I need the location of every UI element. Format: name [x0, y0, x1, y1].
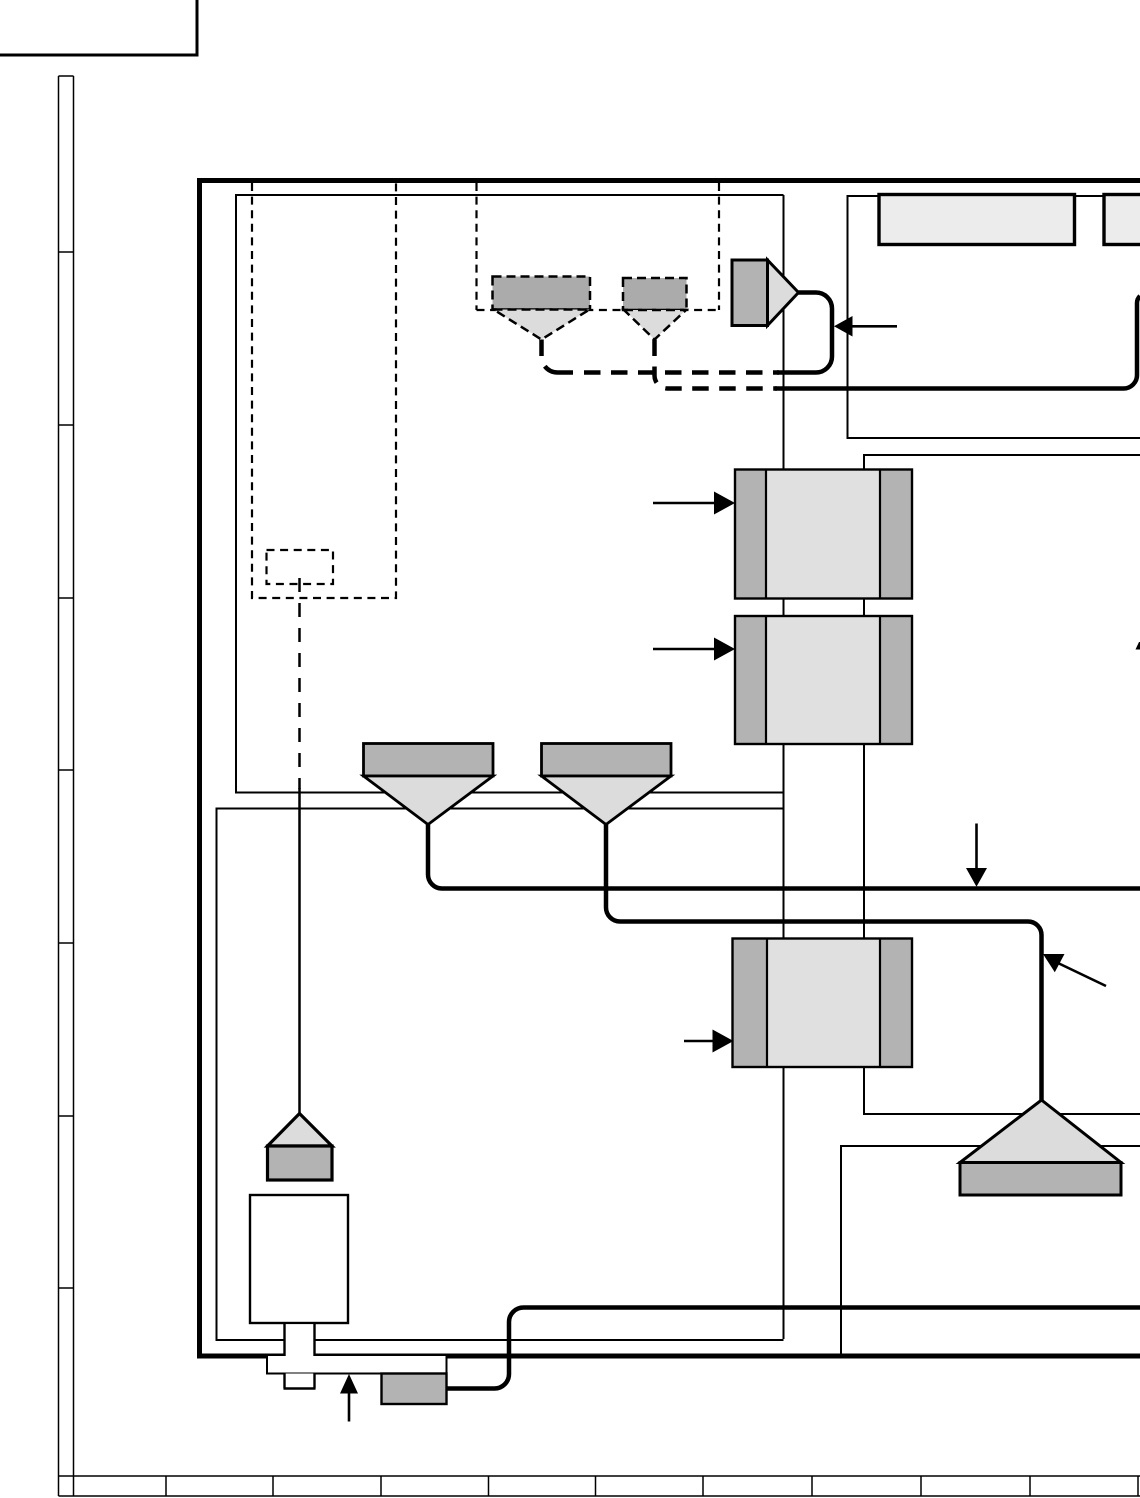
funnel F1: [364, 744, 494, 825]
wire: right elbow bus x=863.5 with y=454.5 and y=1114 branches: [864, 455, 1140, 1114]
module rect R1 (top right): [879, 195, 1075, 245]
connector block CN1: [735, 470, 912, 599]
connector funnel pointing right: [732, 260, 799, 326]
module rect R2 (top right, cropped): [1104, 195, 1140, 245]
dashed option box (speaker group): [477, 183, 720, 310]
sheet title block (top-left, cropped): [0, 0, 197, 55]
dashed harness wire A: [584, 370, 779, 375]
module box top-right (thin outline, cropped right): [848, 196, 1140, 438]
arrow diagonal (onto vertical thick wire): [1043, 954, 1106, 986]
thick wire from funnel F1 to right edge: [428, 825, 1140, 889]
white stub through border: [285, 1323, 315, 1358]
arrowhead fragment at right edge: [1136, 642, 1140, 650]
thick dashed wire from speaker A: [542, 293, 1140, 389]
connector block CN2: [735, 616, 912, 744]
wire A curve piece: [545, 366, 573, 372]
dashed wire B lower stub and curve: [655, 367, 778, 389]
node bus: long vertical wire x=783.5: [783, 195, 785, 1339]
connector block CN3: [733, 939, 913, 1068]
flat connector rect at bottom: [267, 1356, 447, 1374]
wire: vertical x=841 with y=1146 branch: [841, 1146, 1140, 1356]
wire stub under speaker A: [539, 340, 544, 357]
wire B solid end, to right edge going up: [775, 296, 1140, 389]
arrow into CN2: [653, 638, 735, 661]
speaker A (dashed funnel): [493, 277, 591, 340]
arrow into CN3: [684, 1030, 734, 1053]
small funnel pointing up (bottom left): [268, 1114, 333, 1181]
PCB block B outline (lower thin box): [217, 809, 784, 1341]
gray module rect (bottom): [382, 1374, 447, 1405]
thick wire bottom (from gray module to right edge): [447, 1308, 1140, 1389]
white module box (bottom left): [250, 1195, 348, 1323]
arrow into CN1: [653, 492, 735, 515]
funnel F2: [542, 744, 672, 825]
wire from small box (solid lower part): [298, 788, 301, 1114]
speaker B (dashed funnel): [623, 278, 687, 340]
white stub below flat rect: [284, 1374, 316, 1389]
main unit outline (thick border, right side cropped): [200, 181, 1140, 1357]
wire stub under speaker B: [652, 340, 657, 357]
left margin ruler strip: [59, 76, 74, 1496]
arrow pointing down (onto thick wire): [966, 824, 987, 887]
dashed option box (tall): [252, 183, 396, 598]
big funnel pointing up (bottom right): [960, 1100, 1121, 1195]
PCB block A outline (upper thin box): [236, 195, 784, 793]
wire A solid end into connector funnel: [777, 293, 832, 373]
arrow pointing left (top): [834, 316, 897, 337]
thick wire from funnel F2 down to big funnel: [606, 825, 1042, 1101]
arrow pointing up (bottom): [340, 1374, 358, 1422]
bottom margin ruler strip: [59, 1476, 1140, 1496]
small dashed component box: [267, 550, 334, 584]
dashed wire from small box (upper part): [298, 578, 301, 789]
